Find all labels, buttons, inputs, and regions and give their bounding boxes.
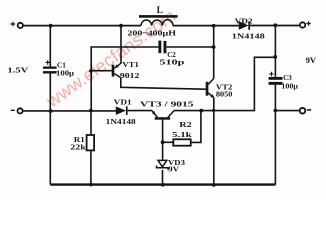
resistor R1 [87,135,95,150]
svg-text:9V: 9V [306,55,317,65]
watermark www.elecfans.com [42,6,180,112]
wire R1 column [90,111,92,185]
wire top rail middle [173,25,239,27]
node junction VT1 base tap [89,69,93,73]
terminal - output (bottom-right) [300,108,311,114]
node junction middle row / R2 riser [199,109,203,113]
wire C1 column lower [49,74,51,185]
svg-text:5.1k: 5.1k [172,131,192,139]
wire VT3 base column [162,120,164,161]
node junction middle row / VT2 emitter column [212,109,215,112]
wire middle row VD1 to VT3 [128,110,153,112]
svg-text:8050: 8050 [216,91,233,99]
node junction top rail / VT1 emitter [119,24,123,28]
wire R2 right lead and riser [191,111,201,143]
svg-text:100μ: 100μ [281,82,298,90]
svg-text:VD2: VD2 [235,17,254,25]
svg-text:1.5V: 1.5V [7,65,28,74]
wire VT2 emitter column [213,98,215,185]
node junction middle row / C1 column [49,109,53,113]
node junction top rail / C1 [49,24,53,28]
inductor L coil [141,20,173,26]
svg-text:9012: 9012 [120,72,140,80]
svg-text:1N4148: 1N4148 [232,32,266,40]
node junction bottom rail / VD3 [161,183,165,187]
wire bottom rail [50,183,275,185]
terminal - input (bottom-left) [11,108,23,113]
wire VD3 lower lead [162,170,164,185]
svg-text:9V: 9V [168,166,179,174]
wire right branch up to C3 node [254,57,275,111]
node junction top rail / C3 column [273,23,277,27]
svg-text:C3: C3 [283,74,292,82]
wire VT2 collector column [213,26,215,79]
node junction bottom rail / R1 [89,183,93,187]
svg-text:VT1: VT1 [122,60,139,69]
wire C3 column lower [274,85,276,185]
capacitor C3 [269,77,283,85]
transistor VT3 9015 [152,111,174,120]
svg-text:22k: 22k [70,144,86,152]
svg-text:510p: 510p [159,58,184,66]
zener diode VD3 [157,160,169,170]
wire middle row VT3 to corner [174,110,255,112]
node junction middle row / R1 column [89,109,93,113]
inductor L core bar [139,15,178,18]
terminal + output 9V (top-right) [300,21,311,27]
node junction top rail / VT2 collector [212,24,216,28]
terminal + input (top-left) [11,22,23,28]
diode VD2 [239,21,250,30]
node junction C3 column / output minus wire [274,109,278,113]
polarity + of C1 [45,60,50,65]
capacitor C2 [158,41,166,54]
node junction VT3 base / R2 [161,140,165,144]
wire C3 column upper [274,25,276,77]
diode VD1 [116,106,128,115]
svg-text:VD1: VD1 [114,98,133,106]
transistor VT2 8050 [206,79,215,99]
svg-text:R2: R2 [179,121,192,129]
capacitor C1 [43,67,57,74]
wire top rail left [23,25,141,27]
node junction C3 column top tap [273,55,277,59]
svg-text:1N4148: 1N4148 [106,118,137,126]
wire middle row left [23,110,116,112]
node junction bottom rail / VT2 emitter column [212,183,216,187]
wire feedback riser x=91 [90,47,92,111]
node junction C2 row / VT2 collector column [212,45,216,49]
resistor R2 [173,139,190,145]
wire C1 column upper [49,26,51,67]
wire to bottom-right terminal [275,110,299,112]
transistor VT1 9012 [112,63,121,77]
svg-text:200~400μH: 200~400μH [127,29,176,37]
wire top rail right [250,25,300,27]
svg-text:VT3 / 9015: VT3 / 9015 [140,101,194,109]
svg-text:C1: C1 [57,61,66,69]
wire R2 left lead [163,141,174,143]
polarity + of C3 [269,72,273,76]
wire VT1 emitter column [120,26,122,64]
svg-text:100μ: 100μ [56,69,74,77]
wire C2 row [90,46,213,48]
wire VT1 collector to VT2 base [121,77,206,89]
svg-text:L: L [157,6,163,16]
wire VT1 base [91,70,112,72]
